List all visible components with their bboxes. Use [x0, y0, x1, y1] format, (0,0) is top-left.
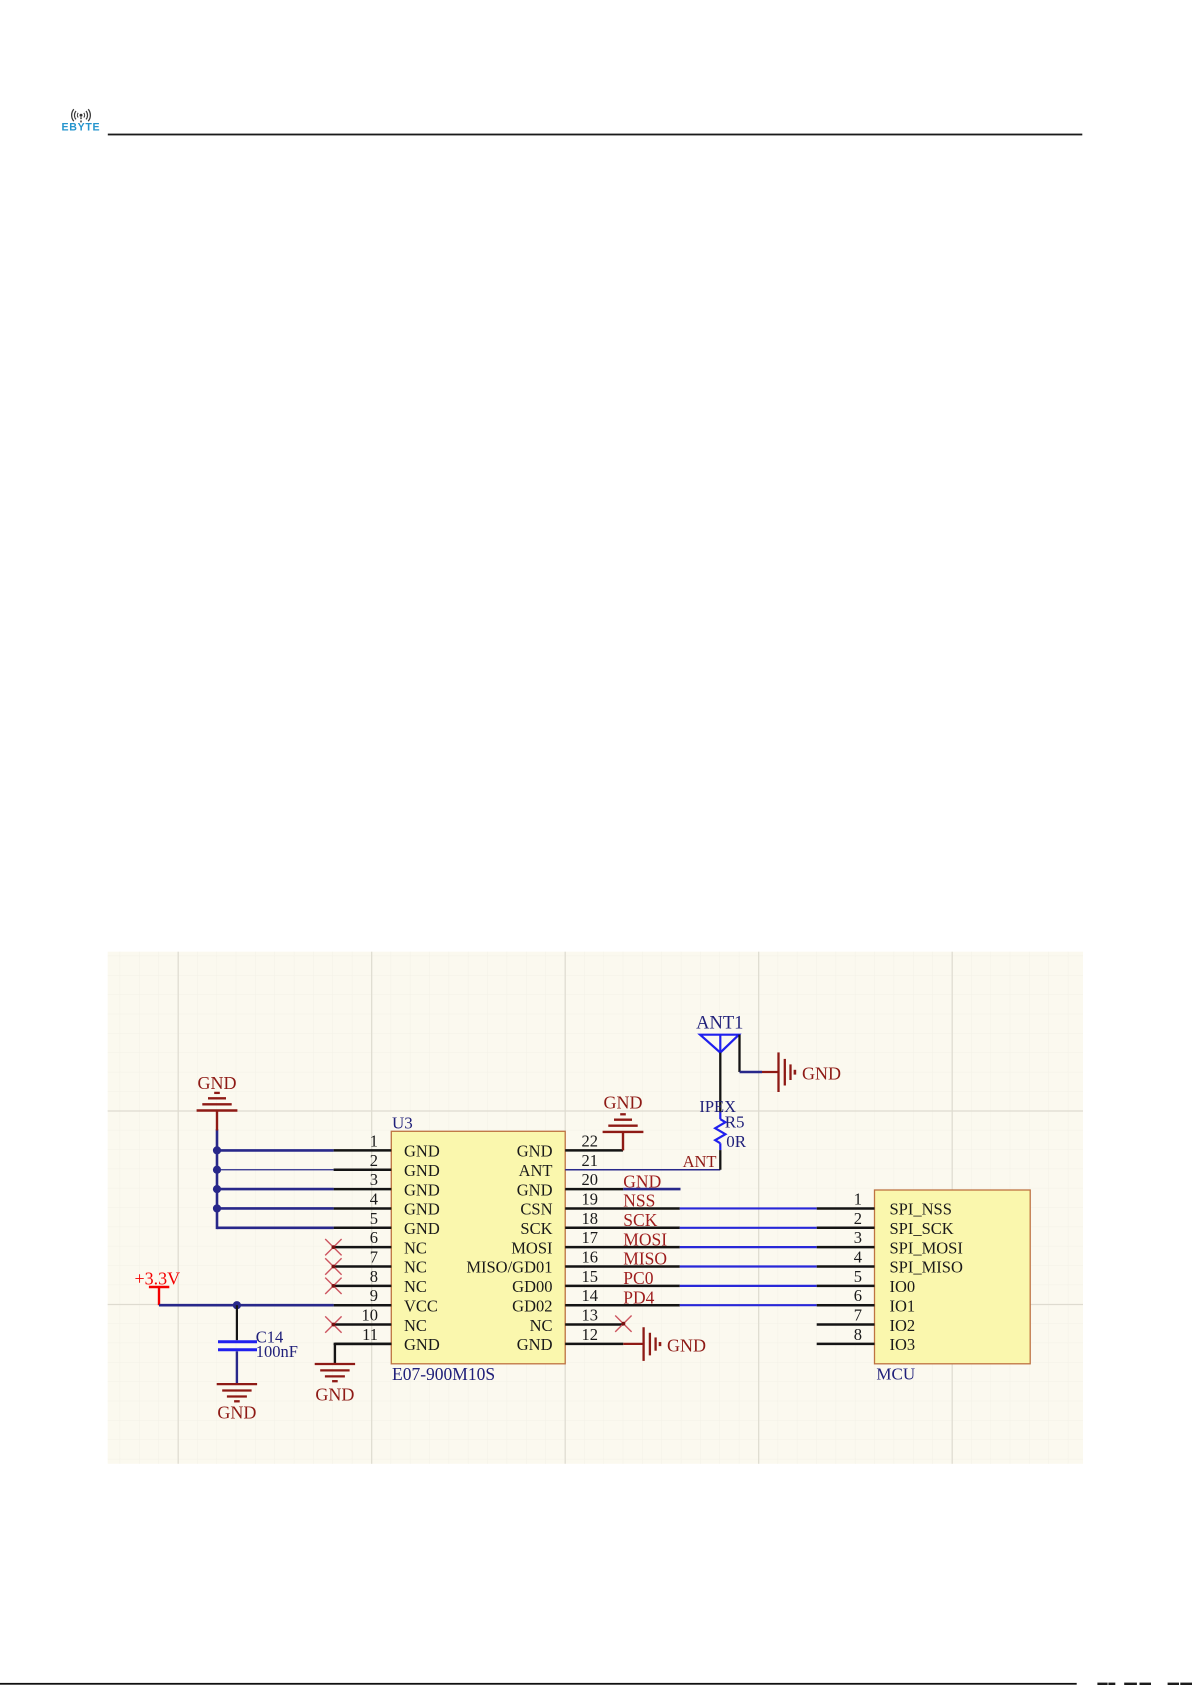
svg-text:GND: GND [404, 1200, 440, 1219]
svg-text:GD00: GD00 [512, 1277, 552, 1296]
svg-text:18: 18 [582, 1209, 599, 1228]
svg-text:11: 11 [362, 1325, 378, 1344]
svg-text:GND: GND [404, 1142, 440, 1161]
svg-text:MISO: MISO [623, 1249, 667, 1269]
svg-text:MOSI: MOSI [511, 1238, 552, 1257]
svg-text:IO1: IO1 [890, 1296, 916, 1315]
svg-text:5: 5 [854, 1267, 862, 1286]
svg-text:10: 10 [362, 1306, 379, 1325]
svg-text:GD02: GD02 [512, 1296, 552, 1315]
svg-text:4: 4 [370, 1189, 378, 1208]
svg-text:+3.3V: +3.3V [135, 1269, 181, 1289]
svg-text:GND: GND [517, 1335, 553, 1354]
svg-text:VCC: VCC [404, 1296, 438, 1315]
svg-text:E07-900M10S: E07-900M10S [392, 1364, 495, 1384]
svg-text:7: 7 [854, 1306, 862, 1325]
svg-text:17: 17 [582, 1228, 599, 1247]
svg-text:SCK: SCK [520, 1219, 552, 1238]
svg-text:ANT: ANT [683, 1152, 717, 1171]
svg-text:NC: NC [530, 1316, 553, 1335]
svg-text:2: 2 [854, 1209, 862, 1228]
svg-text:U3: U3 [392, 1114, 413, 1133]
svg-text:GND: GND [604, 1092, 643, 1112]
svg-text:NC: NC [404, 1258, 427, 1277]
svg-text:3: 3 [854, 1228, 862, 1247]
svg-text:EBYTE: EBYTE [61, 122, 100, 134]
svg-text:22: 22 [582, 1131, 599, 1150]
svg-text:GND: GND [623, 1171, 661, 1191]
svg-text:SCK: SCK [623, 1210, 657, 1230]
svg-text:SPI_MISO: SPI_MISO [890, 1258, 963, 1277]
svg-text:IO3: IO3 [890, 1335, 916, 1354]
svg-text:GND: GND [198, 1073, 237, 1093]
svg-text:SPI_NSS: SPI_NSS [890, 1200, 952, 1219]
svg-text:12: 12 [582, 1325, 599, 1344]
svg-text:GND: GND [802, 1064, 841, 1084]
svg-text:GND: GND [217, 1403, 256, 1423]
svg-text:0R: 0R [726, 1132, 747, 1151]
svg-text:ANT1: ANT1 [696, 1013, 743, 1033]
svg-text:GND: GND [404, 1219, 440, 1238]
svg-text:6: 6 [854, 1286, 862, 1305]
svg-text:GND: GND [404, 1161, 440, 1180]
svg-text:1: 1 [854, 1189, 862, 1208]
svg-text:2: 2 [370, 1151, 378, 1170]
svg-text:IO0: IO0 [890, 1277, 916, 1296]
svg-text:GND: GND [404, 1335, 440, 1354]
svg-text:3: 3 [370, 1170, 378, 1189]
svg-text:14: 14 [582, 1286, 599, 1305]
svg-text:16: 16 [582, 1248, 599, 1267]
svg-text:20: 20 [582, 1170, 599, 1189]
svg-text:1: 1 [370, 1131, 378, 1150]
svg-text:5: 5 [370, 1209, 378, 1228]
svg-text:15: 15 [582, 1267, 599, 1286]
svg-text:GND: GND [404, 1180, 440, 1199]
svg-text:6: 6 [370, 1228, 378, 1247]
svg-text:R5: R5 [725, 1112, 745, 1131]
svg-text:9: 9 [370, 1286, 378, 1305]
svg-text:NC: NC [404, 1316, 427, 1335]
svg-text:8: 8 [370, 1267, 378, 1286]
svg-text:IO2: IO2 [890, 1316, 916, 1335]
svg-text:GND: GND [517, 1142, 553, 1161]
svg-text:NC: NC [404, 1277, 427, 1296]
svg-text:NSS: NSS [623, 1191, 655, 1211]
svg-text:SPI_SCK: SPI_SCK [890, 1219, 954, 1238]
svg-text:ANT: ANT [519, 1161, 553, 1180]
svg-text:SPI_MOSI: SPI_MOSI [890, 1238, 963, 1257]
svg-text:MOSI: MOSI [623, 1229, 667, 1249]
svg-text:100nF: 100nF [256, 1342, 298, 1361]
svg-text:NC: NC [404, 1238, 427, 1257]
svg-text:19: 19 [582, 1189, 599, 1208]
svg-text:21: 21 [582, 1151, 599, 1170]
svg-text:4: 4 [854, 1248, 862, 1267]
svg-text:MISO/GD01: MISO/GD01 [466, 1258, 552, 1277]
svg-text:GND: GND [517, 1180, 553, 1199]
svg-text:PC0: PC0 [623, 1268, 653, 1288]
svg-text:13: 13 [582, 1306, 599, 1325]
svg-text:7: 7 [370, 1248, 378, 1267]
svg-text:8: 8 [854, 1325, 862, 1344]
svg-text:CSN: CSN [520, 1200, 552, 1219]
svg-text:GND: GND [667, 1335, 706, 1355]
svg-text:MCU: MCU [876, 1365, 915, 1384]
svg-text:GND: GND [315, 1384, 354, 1404]
svg-text:PD4: PD4 [623, 1287, 654, 1307]
